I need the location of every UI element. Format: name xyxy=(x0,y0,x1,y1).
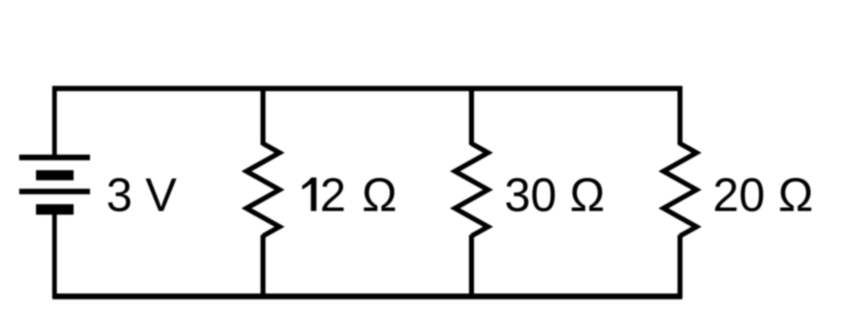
wire resistor R3 upper stub (right side) xyxy=(678,86,683,145)
resistor R3 zigzag xyxy=(664,144,697,237)
wire resistor R2 upper stub xyxy=(469,86,474,145)
battery V1 bar thick 1 xyxy=(36,170,74,180)
wire left branch lower xyxy=(52,213,57,299)
resistor R2 zigzag xyxy=(455,144,488,237)
bottom wire xyxy=(53,293,683,299)
wire resistor R2 lower stub xyxy=(469,235,474,299)
wire left branch upper xyxy=(52,86,57,155)
svg-text:Ω: Ω xyxy=(362,168,397,221)
battery V1 plate long bottom xyxy=(19,189,90,195)
battery V1 bar thick 2 xyxy=(36,204,74,215)
svg-text:2: 2 xyxy=(320,168,346,221)
battery V1 plate long top xyxy=(19,155,90,161)
label 12 Ω : digit 1 drawn as path (no-foot style) xyxy=(302,178,316,212)
top wire xyxy=(53,86,683,91)
svg-text:30 Ω: 30 Ω xyxy=(504,168,604,221)
resistor R1 zigzag xyxy=(247,144,280,237)
wire resistor R3 lower stub xyxy=(678,235,683,299)
wire resistor R1 upper stub xyxy=(261,86,266,145)
svg-text:20 Ω: 20 Ω xyxy=(713,168,813,221)
svg-text:3 V: 3 V xyxy=(106,168,177,221)
wire resistor R1 lower stub xyxy=(261,235,266,299)
